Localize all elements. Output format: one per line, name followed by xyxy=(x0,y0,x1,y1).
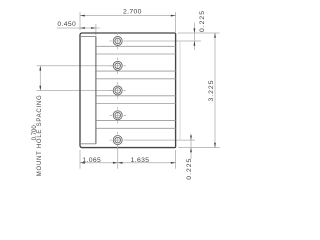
svg-text:0.225: 0.225 xyxy=(199,10,206,32)
svg-text:0.225: 0.225 xyxy=(186,158,193,180)
svg-text:1.065: 1.065 xyxy=(82,157,101,164)
svg-text:2.700: 2.700 xyxy=(123,9,142,16)
svg-text:1.635: 1.635 xyxy=(131,157,150,164)
svg-text:3.225: 3.225 xyxy=(208,79,215,101)
svg-text:MOUNT HOLE SPACING: MOUNT HOLE SPACING xyxy=(37,95,43,177)
svg-text:0.450: 0.450 xyxy=(57,21,76,28)
